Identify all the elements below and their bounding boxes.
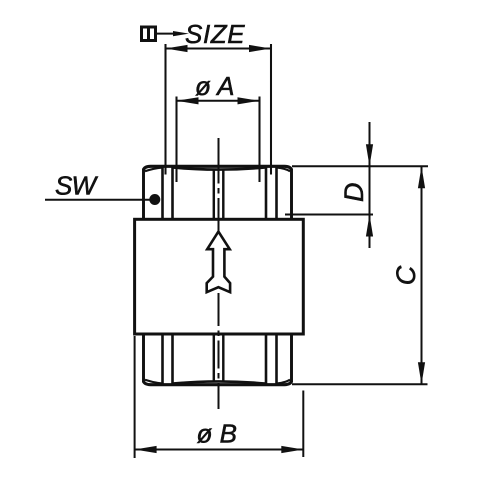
top extension line for C and D (292, 165, 428, 167)
text D (rotated) (339, 183, 369, 203)
øB extension line right (302, 391, 304, 458)
svg-text:SW: SW (55, 170, 99, 200)
C bottom extension line (292, 383, 428, 385)
bottom hex nut (144, 334, 292, 385)
øB extension line left (134, 336, 136, 458)
text C (rotated) (391, 265, 421, 285)
øA dimension line (177, 100, 260, 102)
top hex nut (144, 166, 292, 219)
leader arrow to SIZE (157, 33, 176, 35)
SIZE dimension line (166, 48, 272, 50)
svg-text:C: C (391, 265, 421, 285)
D lower extension line (285, 214, 373, 216)
øB dimension line (135, 449, 304, 451)
SW leader dot (149, 194, 160, 205)
C dimension (421, 166, 423, 384)
centerline (218, 138, 220, 409)
SIZE extension line left (164, 44, 166, 175)
SIZE extension line right (270, 44, 272, 175)
flow arrow (207, 232, 230, 293)
body (135, 219, 304, 334)
øA extension line right (258, 97, 260, 183)
D dimension (369, 122, 371, 248)
svg-text:D: D (339, 183, 369, 203)
SW leader line (45, 199, 154, 201)
svg-text:ø A: ø A (195, 71, 234, 101)
thread symbol square (142, 27, 156, 41)
svg-text:SIZE: SIZE (185, 19, 245, 49)
svg-text:ø B: ø B (197, 419, 237, 449)
øA extension line left (175, 97, 177, 183)
